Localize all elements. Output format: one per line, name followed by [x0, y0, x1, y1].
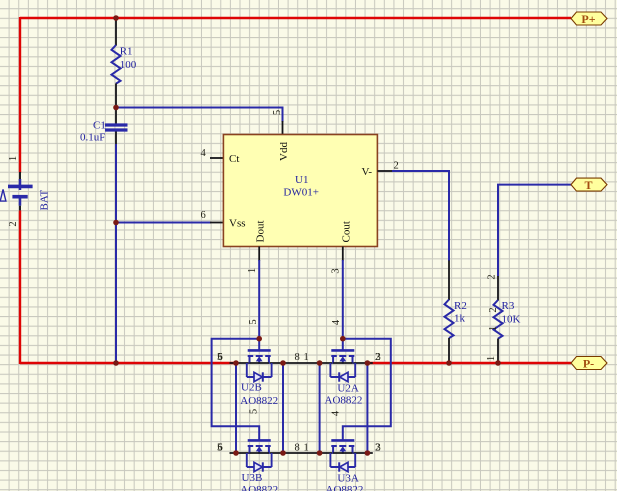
junction U2A left [317, 360, 323, 366]
wire: U3B left lead (pin 6) [230, 452, 250, 454]
svg-text:1: 1 [247, 268, 258, 273]
capacitor C1 [105, 108, 128, 145]
svg-text:1: 1 [304, 443, 309, 454]
wire: T net [498, 185, 571, 277]
svg-text:Vdd: Vdd [278, 142, 290, 161]
svg-text:R2: R2 [454, 300, 467, 312]
svg-text:1k: 1k [454, 313, 466, 325]
svg-text:100: 100 [120, 59, 137, 71]
wire: parallel drop x=236 [235, 363, 237, 453]
transistor U2B [247, 350, 272, 381]
svg-text:R3: R3 [502, 300, 515, 312]
wire: U2B-U2A middle lead (pins 8,1) [270, 362, 333, 364]
svg-text:BAT: BAT [39, 189, 51, 210]
svg-text:2: 2 [487, 274, 498, 279]
svg-text:P+: P+ [581, 12, 595, 26]
wire: U3B-U3A middle lead (pins 8,1) [270, 452, 333, 454]
wire: bottom rail right part to P- [367, 362, 571, 364]
svg-text:5: 5 [248, 319, 259, 324]
pin 3 stub (U1 Cout) [342, 247, 344, 262]
op-amp U1 DW01+ box [223, 135, 377, 247]
svg-text:4: 4 [331, 319, 342, 325]
junction U2B left [233, 360, 239, 366]
svg-text:U2B: U2B [241, 382, 262, 394]
wire: U2B left lead (pin 6) [230, 362, 250, 364]
wire: U3A right lead (pin 3) [353, 452, 373, 454]
svg-text:2: 2 [8, 221, 19, 226]
svg-text:1: 1 [304, 352, 309, 363]
wire: Vdd net from R1/C1 node to U1 pin 5 [116, 108, 283, 123]
wire: Dout branch to U3B gate [212, 339, 260, 441]
svg-text:1: 1 [486, 356, 497, 361]
svg-text:C1: C1 [93, 120, 106, 132]
resistor R1 [112, 18, 121, 108]
svg-text:2: 2 [394, 161, 399, 172]
port P+ [571, 12, 607, 26]
wire: parallel drop x=367.4 [366, 363, 368, 453]
wire: Dout to U2B gate [258, 260, 260, 350]
svg-text:0.1uF: 0.1uF [80, 132, 105, 144]
transistor U3B [247, 440, 272, 471]
svg-text:T: T [584, 178, 592, 192]
svg-text:10K: 10K [502, 314, 521, 326]
junction Cout gate branch [340, 336, 346, 342]
junction R2/P- rail [446, 360, 452, 366]
wire: Vss net [116, 222, 211, 224]
svg-text:AO8822: AO8822 [326, 484, 364, 491]
wire: parallel drop x=319.6 [319, 363, 321, 453]
resistor R2 [445, 261, 454, 364]
junction R1/P+ rail [113, 15, 119, 21]
wire: top P+ rail [20, 17, 571, 19]
pin 5 stub (U1 Vdd) [282, 121, 284, 135]
resistor R3 [494, 276, 503, 363]
svg-text:AO8822: AO8822 [240, 484, 278, 491]
junction U3B right [280, 450, 286, 456]
wire: bottom rail left part [20, 362, 236, 364]
pin 1 stub (U1 Dout) [258, 247, 260, 262]
svg-text:4: 4 [201, 148, 207, 159]
junction U2A right [365, 360, 371, 366]
wire: V- to R2 [392, 171, 449, 261]
transistor U3A [330, 440, 355, 471]
svg-text:5: 5 [272, 110, 283, 115]
svg-text:DW01+: DW01+ [283, 186, 319, 198]
pin 6 stub (U1 Vss) [210, 222, 223, 224]
junction U3A left [317, 450, 323, 456]
svg-text:AO8822: AO8822 [240, 395, 278, 407]
svg-text:U3B: U3B [242, 472, 263, 484]
port P- [571, 357, 607, 371]
wire: left rail lower segment [19, 210, 21, 364]
svg-text:5: 5 [249, 409, 260, 414]
transistor U2A [330, 350, 355, 381]
junction R1/C1/Vdd node [113, 105, 119, 111]
svg-text:1: 1 [8, 156, 19, 161]
pin 4 stub (U1 Ct) [210, 157, 223, 159]
svg-text:P-: P- [583, 357, 594, 371]
wire: C1 down to bottom rail [115, 144, 117, 363]
svg-text:8: 8 [295, 352, 300, 363]
svg-text:1: 1 [488, 326, 499, 331]
wire: left rail upper segment [19, 17, 21, 173]
wire: Cout to U2A gate [342, 260, 344, 350]
junction C1/P- rail [113, 360, 119, 366]
svg-text:2: 2 [375, 443, 380, 454]
junction U3B left [233, 450, 239, 456]
svg-text:Ct: Ct [229, 153, 239, 165]
svg-text:AO8822: AO8822 [325, 395, 363, 407]
svg-text:5: 5 [217, 352, 222, 363]
svg-text:R1: R1 [120, 46, 133, 58]
svg-text:4: 4 [331, 410, 342, 416]
svg-text:Vss: Vss [229, 218, 246, 230]
svg-text:6: 6 [201, 210, 206, 221]
svg-text:V-: V- [362, 166, 373, 178]
svg-text:2: 2 [488, 307, 499, 312]
junction R3/P- rail [495, 360, 501, 366]
port T [571, 178, 607, 192]
svg-text:U2A: U2A [337, 383, 358, 395]
svg-text:5: 5 [217, 443, 222, 454]
pin 2 stub (U1 V-) [377, 170, 392, 172]
wire: U2A right lead (pin 3) [353, 362, 373, 364]
junction U2B right [280, 360, 286, 366]
junction U3A right [365, 450, 371, 456]
svg-text:2: 2 [375, 352, 380, 363]
svg-text:8: 8 [295, 443, 300, 454]
svg-text:3: 3 [331, 268, 342, 273]
svg-text:U1: U1 [295, 174, 308, 186]
svg-text:U3A: U3A [337, 473, 358, 485]
svg-text:Dout: Dout [255, 221, 267, 243]
wire: Cout branch to U3A gate [343, 339, 391, 441]
wire: parallel drop x=283 [282, 363, 284, 453]
battery BAT [0, 172, 32, 210]
svg-text:Cout: Cout [341, 221, 353, 242]
junction Dout gate branch [256, 336, 262, 342]
junction C1/Vss node [113, 220, 119, 226]
